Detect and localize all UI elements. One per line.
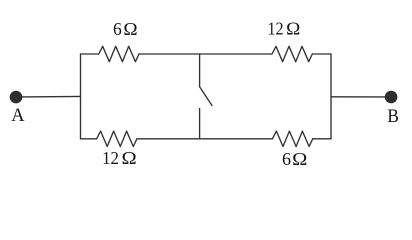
resistor R3 12Ω (bottom-left) bbox=[97, 131, 137, 146]
wire: left vertical rail bbox=[80, 54, 82, 139]
svg-text:6: 6 bbox=[282, 149, 291, 169]
svg-text:Ω: Ω bbox=[286, 18, 300, 38]
switch S1 blade (open) bbox=[200, 87, 212, 106]
wire: middle branch upper segment bbox=[199, 54, 201, 87]
terminal A dot bbox=[10, 91, 23, 104]
resistor R2 12Ω (top-right) bbox=[272, 46, 312, 61]
svg-text:B: B bbox=[387, 106, 399, 127]
wire: right rail to terminal B bbox=[331, 96, 385, 98]
wire: bottom rail left segment bbox=[81, 138, 97, 140]
terminal B dot bbox=[385, 91, 398, 104]
wire: bottom rail right segment bbox=[313, 138, 331, 140]
svg-text:Ω: Ω bbox=[123, 19, 137, 39]
wire: bottom rail middle segment bbox=[137, 138, 273, 140]
wire: middle branch lower segment bbox=[199, 109, 201, 139]
wire: terminal A to left rail bbox=[22, 95, 80, 98]
wire: right vertical rail bbox=[330, 54, 332, 139]
svg-text:Ω: Ω bbox=[122, 148, 137, 168]
resistor R4 6Ω (bottom-right) bbox=[272, 131, 312, 146]
resistor R1 6Ω (top-left) bbox=[99, 46, 139, 61]
wire: top rail right segment bbox=[312, 53, 331, 55]
wire: top rail middle segment bbox=[139, 53, 272, 55]
svg-text:12: 12 bbox=[102, 148, 119, 168]
svg-text:Ω: Ω bbox=[292, 149, 307, 169]
svg-text:6: 6 bbox=[113, 19, 122, 39]
svg-text:12: 12 bbox=[268, 18, 284, 38]
svg-text:A: A bbox=[11, 105, 24, 126]
wire: top rail left segment bbox=[81, 53, 99, 55]
